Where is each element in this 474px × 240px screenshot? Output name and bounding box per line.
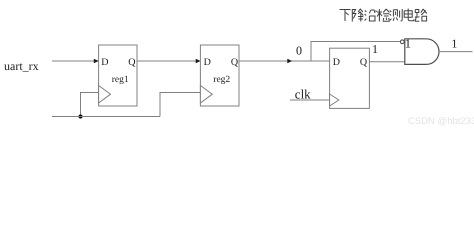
wire reg3 Q to AND input [369, 61, 404, 63]
char 检 [377, 9, 390, 22]
svg-text:1: 1 [451, 37, 457, 51]
clock triangle reg2 [200, 86, 212, 104]
clock trunk wire bottom [52, 116, 160, 118]
wire node up and over to AND bubble [311, 42, 400, 62]
arrowhead into reg1 D [94, 59, 99, 63]
clock wire branch to reg1 [81, 93, 99, 117]
svg-text:Q: Q [360, 57, 368, 68]
mid-wire arrowhead [287, 59, 292, 63]
char 降 [352, 9, 363, 22]
svg-text:Q: Q [128, 57, 136, 68]
wire uart_rx to reg1 D [52, 60, 94, 62]
svg-text:1: 1 [405, 36, 411, 50]
char 测 [390, 9, 403, 21]
svg-text:D: D [101, 57, 108, 68]
clock wire branch to reg2 [160, 93, 200, 117]
wire reg1 Q to reg2 D [137, 60, 196, 62]
arrowhead into reg2 D [196, 59, 201, 63]
svg-text:uart_rx: uart_rx [4, 59, 39, 73]
svg-text:reg2: reg2 [213, 75, 230, 85]
svg-text:1: 1 [372, 42, 378, 56]
flip-flop reg3 [330, 48, 370, 108]
char 沿 [365, 10, 377, 21]
AND output wire [439, 51, 473, 53]
inverter bubble on AND top input [400, 40, 404, 44]
clock triangle reg1 [99, 86, 111, 104]
char 电 [404, 9, 414, 21]
svg-text:D: D [204, 57, 211, 68]
clock triangle reg3 [330, 94, 339, 106]
svg-text:clk: clk [295, 87, 311, 102]
clk wire to reg3 [290, 99, 330, 101]
svg-text:0: 0 [296, 44, 302, 58]
char 下 [340, 10, 351, 22]
flip-flop reg2 [200, 45, 239, 106]
junction dot on clock line [79, 115, 83, 119]
svg-text:D: D [333, 57, 340, 68]
svg-text:Q: Q [231, 57, 239, 68]
wire reg2 Q to reg3 D [239, 60, 330, 62]
svg-text:reg1: reg1 [112, 75, 129, 85]
char 路 [415, 9, 427, 21]
svg-text:CSDN @hbt233: CSDN @hbt233 [408, 116, 474, 127]
title 下降沿检测电路 (hand-drawn strokes) [340, 9, 427, 22]
flip-flop reg1 [99, 45, 137, 106]
AND gate U1 [405, 39, 439, 65]
